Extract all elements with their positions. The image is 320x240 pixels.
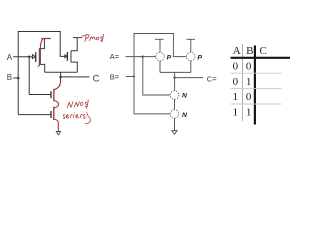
transistor Q3 drain hook (red) [54,82,60,90]
transistor P1 stem to VDD [159,39,161,52]
table row separator 1 [231,72,282,74]
red overlay on Q1 channel [38,39,42,66]
wire A to NMOS Q3 gate [29,57,51,95]
transistor Q2 drain lead [71,62,77,72]
table header underline (thick) [231,57,291,59]
wire output down to N1 (mid) [174,78,176,91]
transistor P2 circle [187,52,196,61]
wire B to NMOS Q4 gate [18,114,51,116]
transistor P1 circle [156,52,165,61]
table row separator 2 [231,88,282,90]
transistor Q2 source lead [71,38,77,51]
annotation text series (red) [63,113,90,124]
transistor Q1 source lead [39,39,44,49]
red ink group: left schematic annotations [38,38,60,131]
transistor Q3/Q4 series link (red) [54,100,59,108]
svg-text:C: C [93,73,100,84]
transistor Q3 channel (red) [53,89,55,100]
wire B to N2 gate (mid) [134,113,170,115]
wire N2 to ground (mid) [174,118,176,130]
VDD T-bar P2 [186,38,195,40]
transistor Q4 channel (red) [53,107,55,119]
svg-text:0: 0 [233,76,239,88]
wire output C= (mid) [175,77,203,79]
svg-text:N: N [182,112,188,119]
wire drop to output node [60,72,62,77]
wire A= input [126,56,156,58]
svg-text:B: B [7,73,12,82]
transistor Q4 NMOS gate bar [50,111,52,118]
node A junction dot (mid) [142,55,144,57]
wire N1 to N2 [174,99,176,109]
svg-text:A: A [233,45,241,57]
transistor P1 drain [159,61,161,73]
transistor N2 circle [170,110,179,119]
transistor Q4 source to ground (red) [54,119,59,131]
annotation text NMOS (red) [67,100,88,109]
wire B input [13,77,18,79]
svg-text:P: P [167,54,172,61]
svg-text:P: P [197,54,202,61]
svg-text:A=: A= [110,52,120,61]
svg-text:0: 0 [246,61,252,73]
wire B riser, rail and drop to P2 gate (mid) [134,34,186,114]
wire drop to output (mid) [174,72,176,77]
transistor Q3 NMOS gate bar [50,91,52,98]
wire output node down to NMOS Q3 drain [60,77,62,82]
svg-text:1: 1 [246,76,252,88]
transistor Q1 gate bar [35,52,37,62]
transistor P2 drain [190,61,192,73]
svg-text:A: A [7,53,13,62]
table row separator 3 [231,103,282,105]
svg-text:0: 0 [233,61,239,73]
transistor Q1 drain lead [39,64,44,72]
svg-text:1: 1 [233,91,239,103]
transistor Q2 gate bar [66,52,68,61]
transistor Q2 PMOS right: gate bubble [65,55,67,58]
VDD T-bar P1 [155,38,164,40]
wire A to N1 gate (mid) [143,57,170,95]
red overlay on Q1 T-bar [42,37,49,39]
ground symbol left [56,132,60,135]
svg-text:C: C [260,45,267,57]
node C junction dot (mid) [173,76,175,78]
transistor N1 circle [170,91,179,100]
wire P drain bus (mid) [160,71,191,73]
node A junction dot [28,56,31,59]
table column rule A|B (thin) [242,44,244,121]
wire PMOS drain bus [45,71,78,73]
svg-text:B=: B= [110,73,120,82]
wire output C [61,76,90,78]
svg-text:N: N [182,93,188,100]
wire B= input [126,76,134,78]
svg-text:1: 1 [246,107,252,119]
node B junction dot (mid) [133,75,135,77]
node B junction dot [17,77,20,80]
table column rule B|C (thick) [254,46,256,125]
wire A input [13,56,32,58]
annotation text PMOS (red) [82,34,103,42]
wire B riser and top rail to Q2 gate [18,32,65,115]
ground symbol mid [172,131,177,135]
svg-text:C=: C= [207,75,217,84]
transistor P2 stem to VDD [190,39,192,52]
svg-text:0: 0 [246,91,252,103]
VDD T-bar for Q1 [42,38,51,40]
node C junction dot [59,76,62,79]
VDD T-bar for Q2 [73,37,82,39]
svg-text:1: 1 [233,107,239,119]
transistor Q2 channel [70,51,72,63]
transistor Q1 PMOS left: gate bubble [32,55,35,59]
transistor Q1 channel [38,48,40,64]
svg-text:B: B [246,45,253,57]
